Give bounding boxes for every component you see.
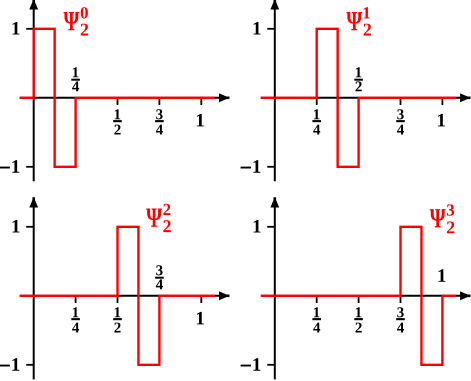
tick x=1/4	[75, 296, 77, 303]
tick x=1/4	[316, 98, 318, 105]
tick x=1	[200, 296, 202, 303]
tick y=-1	[267, 364, 275, 366]
tick x=1	[441, 296, 443, 303]
label 1 below axis	[197, 312, 204, 325]
y-axis	[33, 199, 35, 379]
tick y=-1	[26, 364, 34, 366]
tick x=1/4	[316, 296, 318, 303]
y-axis arrowhead	[270, 0, 279, 10]
y-axis	[274, 1, 276, 181]
tick y=-1	[26, 166, 34, 168]
label 1/2 above axis	[354, 67, 363, 91]
tick x=3/4	[400, 98, 402, 105]
label 1/4 below axis	[71, 307, 80, 332]
x-axis arrowhead	[460, 93, 471, 102]
label 3/4 below axis	[396, 307, 405, 332]
label 1 below axis	[438, 114, 445, 127]
label 1/4 below axis	[312, 307, 321, 332]
label 3/4 above axis	[155, 265, 164, 289]
x-axis arrowhead	[219, 93, 230, 102]
x-axis	[20, 97, 226, 99]
tick y=1	[267, 226, 275, 228]
y-axis arrowhead	[29, 0, 38, 10]
label 1/2 below axis	[113, 307, 122, 332]
label 1 on y-axis	[254, 220, 261, 233]
label -1 on y-axis	[0, 160, 19, 173]
wavelet psi_2^3 curve	[261, 227, 456, 365]
tick x=1/2	[358, 296, 360, 303]
tick x=1/2	[117, 296, 119, 303]
x-axis arrowhead	[219, 291, 230, 300]
label 1 on y-axis	[13, 220, 20, 233]
x-axis	[20, 295, 226, 297]
label 1 on y-axis	[254, 22, 261, 35]
y-axis	[274, 199, 276, 379]
x-axis arrowhead	[460, 291, 471, 300]
tick y=-1	[267, 166, 275, 168]
label -1 on y-axis	[241, 358, 261, 371]
label 3/4 below axis	[155, 109, 164, 134]
label 1/4 below axis	[312, 109, 321, 134]
label psi_2^3	[430, 204, 455, 233]
label 1 below axis	[197, 114, 204, 127]
tick x=3/4	[158, 98, 160, 105]
wavelet psi_2^2 curve	[20, 227, 215, 365]
x-axis	[261, 295, 467, 297]
y-axis	[33, 1, 35, 181]
tick x=1/4	[75, 98, 77, 105]
tick x=3/4	[158, 296, 160, 303]
wavelet psi_2^1 curve	[261, 29, 456, 167]
label 1/4 above axis	[71, 67, 80, 91]
tick x=1	[200, 98, 202, 105]
tick x=1	[441, 98, 443, 105]
label -1 on y-axis	[241, 160, 261, 173]
label psi_2^0	[63, 7, 88, 35]
label 1 above axis	[439, 269, 446, 282]
label 1/2 below axis	[113, 109, 122, 134]
tick x=1/2	[117, 98, 119, 105]
tick y=1	[26, 28, 34, 30]
tick y=1	[267, 28, 275, 30]
tick y=1	[26, 226, 34, 228]
label -1 on y-axis	[0, 358, 19, 371]
label 3/4 below axis	[396, 109, 405, 134]
y-axis arrowhead	[270, 197, 279, 208]
label psi_2^2	[146, 204, 171, 232]
label psi_2^1	[346, 7, 371, 35]
wavelet psi_2^0 curve	[20, 29, 215, 167]
x-axis	[261, 97, 467, 99]
label 1/2 below axis	[354, 307, 363, 332]
y-axis arrowhead	[29, 197, 38, 208]
tick x=3/4	[400, 296, 402, 303]
tick x=1/2	[358, 98, 360, 105]
label 1 on y-axis	[13, 22, 20, 35]
